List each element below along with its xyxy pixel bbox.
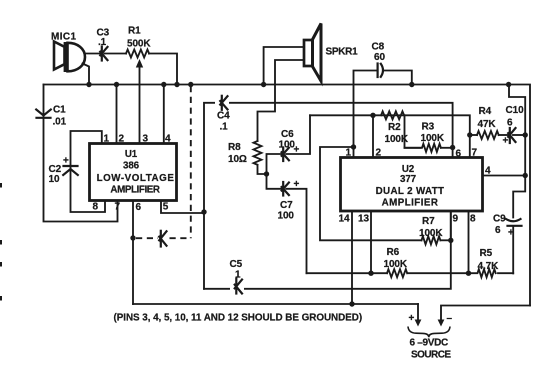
wire U2 pin2 stub — [372, 115, 374, 157]
svg-text:R7: R7 — [422, 216, 435, 227]
junction pin2/bus — [114, 82, 119, 87]
svg-text:6: 6 — [495, 225, 501, 236]
wire junction up to C6 — [267, 154, 283, 174]
svg-text:U1: U1 — [125, 149, 138, 160]
optional capacitor (dashed) — [159, 231, 166, 247]
svg-text:C9: C9 — [493, 214, 506, 225]
wire pin4 rail down through C9 to R5 — [513, 135, 525, 218]
wire R1 right end down to top bus — [149, 54, 177, 85]
svg-text:100K: 100K — [384, 259, 408, 270]
junction R8/C6/C7 — [264, 171, 269, 176]
svg-text:9: 9 — [453, 214, 459, 225]
svg-text:+: + — [503, 136, 509, 147]
left rail wire from bus through C1 down to pin7 line — [44, 85, 118, 222]
svg-text:13: 13 — [358, 214, 370, 225]
wire C3 to R1 — [105, 53, 127, 55]
wire C4 line: pin5/C5 vertical through C4 to U2 pin6 — [204, 103, 453, 289]
junction pin6/dashed cap — [130, 235, 135, 240]
wire C10 right to junction — [513, 134, 525, 136]
svg-text:MIC1: MIC1 — [51, 32, 77, 43]
svg-text:2: 2 — [376, 148, 382, 159]
C5 line wire from C4 vertical to U2 pin9 — [204, 211, 451, 289]
svg-text:DUAL 2 WATT: DUAL 2 WATT — [376, 186, 445, 197]
wire speaker bottom lead down to R8 — [258, 60, 305, 141]
svg-text:R4: R4 — [479, 106, 492, 117]
capacitor C7 electrolytic — [282, 179, 300, 196]
junction pin5/C4 vertical — [201, 209, 206, 214]
wire U2 pin9 stub to R7 junction — [450, 211, 452, 240]
svg-text:6: 6 — [456, 149, 462, 160]
junction pin14/ground bus — [349, 301, 354, 306]
svg-text:8: 8 — [93, 202, 99, 213]
svg-text:100K: 100K — [419, 228, 443, 239]
scan edge marks — [0, 183, 2, 301]
junction pin8/R5 — [466, 271, 471, 276]
MIC1 microphone symbol — [54, 42, 85, 73]
svg-text:R3: R3 — [422, 122, 435, 133]
svg-text:6: 6 — [136, 202, 142, 213]
capacitor C10 electrolytic — [503, 128, 516, 147]
svg-text:C1: C1 — [53, 105, 66, 116]
svg-text:1: 1 — [346, 148, 352, 159]
svg-text:R8: R8 — [228, 142, 241, 153]
dashed wire optional cap to pin6 — [136, 237, 158, 239]
wire U2 pin1 stub — [353, 147, 355, 158]
wire R2 right jog down to R3 — [405, 115, 421, 148]
junction C8/bus — [409, 82, 414, 87]
svg-text:100: 100 — [279, 140, 296, 151]
wire C9 down to R5 corner — [512, 227, 514, 273]
svg-text:6: 6 — [507, 118, 513, 129]
wire R3 to pin6 vertical — [441, 147, 453, 149]
svg-text:C4: C4 — [217, 111, 230, 122]
battery label 6-9VDC SOURCE — [410, 338, 452, 361]
svg-text:C5: C5 — [230, 259, 243, 270]
resistor R6 100K — [387, 269, 407, 277]
svg-text:AMPLIFIER: AMPLIFIER — [110, 185, 160, 196]
junction C10-feed/bus — [506, 82, 511, 87]
capacitor C5 (gap in line) — [230, 279, 244, 297]
wire R6 to pin8 junction — [407, 272, 468, 274]
svg-text:(PINS 3, 4, 5, 10, 11 AND 12 S: (PINS 3, 4, 5, 10, 11 AND 12 SHOULD BE G… — [114, 313, 363, 324]
capacitor C2 electrolytic — [63, 156, 78, 176]
svg-text:1: 1 — [104, 134, 110, 145]
junction dashed-line/bus — [188, 82, 193, 87]
wire MIC1 output to C3 — [85, 53, 101, 55]
wire U2 pin14 stub down to ground bus — [351, 211, 353, 304]
svg-text:60: 60 — [374, 52, 385, 63]
wire pin1 tap left and down to R7 line — [320, 147, 422, 240]
resistor R5 4.7K — [469, 269, 496, 277]
wire C8 left lead down to U2 pin1 — [354, 71, 378, 148]
svg-text:4: 4 — [165, 134, 171, 145]
battery plus arrow — [409, 304, 422, 327]
wire R8 bottom to C6/C7 junction — [258, 166, 267, 174]
wire C8 right lead down to bus — [384, 71, 412, 85]
resistor R8 10ohm — [254, 141, 262, 165]
dashed wire optional cap to dashed rail — [170, 237, 191, 239]
svg-text:+: + — [409, 313, 415, 324]
wire speaker top lead to bus — [264, 47, 304, 85]
svg-text:C7: C7 — [280, 200, 293, 211]
wire C2 bypass bracket pin1 to pin8 — [71, 131, 106, 212]
resistor R4 47K — [470, 131, 509, 139]
svg-text:10Ω: 10Ω — [228, 154, 247, 165]
capacitor C4 (gap in line) — [215, 96, 229, 110]
svg-text:47K: 47K — [478, 119, 497, 130]
junction pin1/R7-tap — [351, 144, 356, 149]
svg-text:10: 10 — [49, 174, 60, 185]
svg-text:SOURCE: SOURCE — [411, 350, 451, 361]
resistor R1 500K (potentiometer) — [126, 50, 149, 58]
svg-text:–: – — [447, 313, 453, 324]
svg-text:377: 377 — [400, 174, 417, 185]
speaker SPKR1 — [304, 24, 321, 82]
svg-text:7: 7 — [472, 148, 478, 159]
wire R7 to pin9 — [441, 239, 451, 241]
capacitor C3 — [100, 47, 107, 61]
svg-text:R5: R5 — [480, 248, 493, 259]
junction R1/bus — [174, 82, 179, 87]
resistor R2 100K — [381, 111, 404, 119]
wire U1 pin5 to C4 vertical — [161, 201, 204, 214]
svg-text:100K: 100K — [421, 133, 445, 144]
svg-text:C10: C10 — [506, 105, 525, 116]
junction pin4/bus — [161, 82, 166, 87]
svg-text:R1: R1 — [128, 26, 141, 37]
wire bus to U1 pin 4 — [163, 85, 165, 144]
capacitor C8 — [378, 64, 383, 78]
junction R7/pin9 — [448, 238, 453, 243]
junction pin4 — [523, 173, 528, 178]
junction pin2/R2/C6 — [370, 113, 375, 118]
U2 text — [376, 164, 445, 209]
junction speaker-wire/bus — [261, 82, 266, 87]
battery minus arrow and wire to right rail — [438, 306, 530, 327]
capacitor C6 electrolytic — [282, 145, 300, 162]
junction pin13/R6 — [368, 271, 373, 276]
capacitor C9 electrolytic — [506, 219, 522, 239]
svg-text:R6: R6 — [387, 247, 400, 258]
wire MIC1 bottom lead down to top bus — [83, 64, 90, 85]
wire U2 pin8 stub — [468, 211, 470, 273]
wire C6 to line A (R2/pin2) — [286, 115, 310, 154]
junction R3/pin6 — [450, 145, 455, 150]
top bus wire (negative rail) — [44, 85, 531, 306]
resistor R7 100K — [422, 236, 441, 244]
dashed rail from top bus down — [190, 86, 192, 238]
wire bus to U1 pin 2 — [116, 85, 118, 144]
line A wire C6 to R2 to U2 pin7 corner — [310, 115, 470, 157]
svg-text:5: 5 — [163, 202, 169, 213]
wire C10 junction up to bus jog — [509, 85, 525, 136]
R1 wiper arrow and wire down to U1 pin 3 — [136, 59, 143, 144]
svg-text:7: 7 — [115, 202, 121, 213]
svg-text:8: 8 — [470, 214, 476, 225]
svg-text:R2: R2 — [388, 122, 401, 133]
resistor R3 100K — [405, 144, 441, 152]
svg-text:AMPLIFIER: AMPLIFIER — [382, 198, 439, 209]
battery brace — [408, 327, 450, 338]
svg-text:C6: C6 — [281, 129, 294, 140]
svg-text:3: 3 — [143, 134, 149, 145]
svg-text:.01: .01 — [53, 117, 67, 128]
wire U2 pin4 to rail — [483, 175, 526, 177]
svg-text:.1: .1 — [220, 122, 229, 133]
svg-text:1: 1 — [235, 270, 241, 281]
wire R5 right corner up to C9 line — [498, 272, 513, 274]
svg-text:100: 100 — [278, 211, 295, 222]
wire U1 pin6 down to ground bus — [132, 201, 134, 305]
junction C10/pin4 rail — [523, 132, 528, 137]
wire C7 down to R6 line — [286, 189, 306, 273]
svg-text:.1: .1 — [98, 37, 107, 48]
svg-text:500K: 500K — [127, 39, 151, 50]
svg-text:+: + — [63, 156, 69, 167]
svg-text:6 –9VDC: 6 –9VDC — [410, 338, 449, 349]
junction mic/bus — [86, 82, 91, 87]
svg-text:LOW-VOLTAGE: LOW-VOLTAGE — [97, 173, 175, 184]
svg-text:C8: C8 — [372, 42, 385, 53]
wire R6 line C7 to pin8 — [307, 272, 388, 274]
ground bus wire pin6 to battery plus — [133, 303, 418, 305]
capacitor C1 — [36, 110, 51, 118]
svg-text:4.7K: 4.7K — [478, 261, 500, 272]
svg-text:2: 2 — [119, 134, 125, 145]
svg-text:386: 386 — [123, 161, 140, 172]
wire junction down to C7 — [267, 174, 283, 189]
junction R4/pin7 — [467, 132, 472, 137]
U1 text — [97, 149, 175, 196]
svg-text:SPKR1: SPKR1 — [326, 47, 359, 58]
op-amp U1 386 low-voltage amplifier box — [90, 144, 177, 201]
wire U2 pin13 stub — [370, 211, 372, 273]
svg-text:14: 14 — [339, 214, 351, 225]
amplifier U2 377 dual 2 watt box — [341, 158, 483, 212]
